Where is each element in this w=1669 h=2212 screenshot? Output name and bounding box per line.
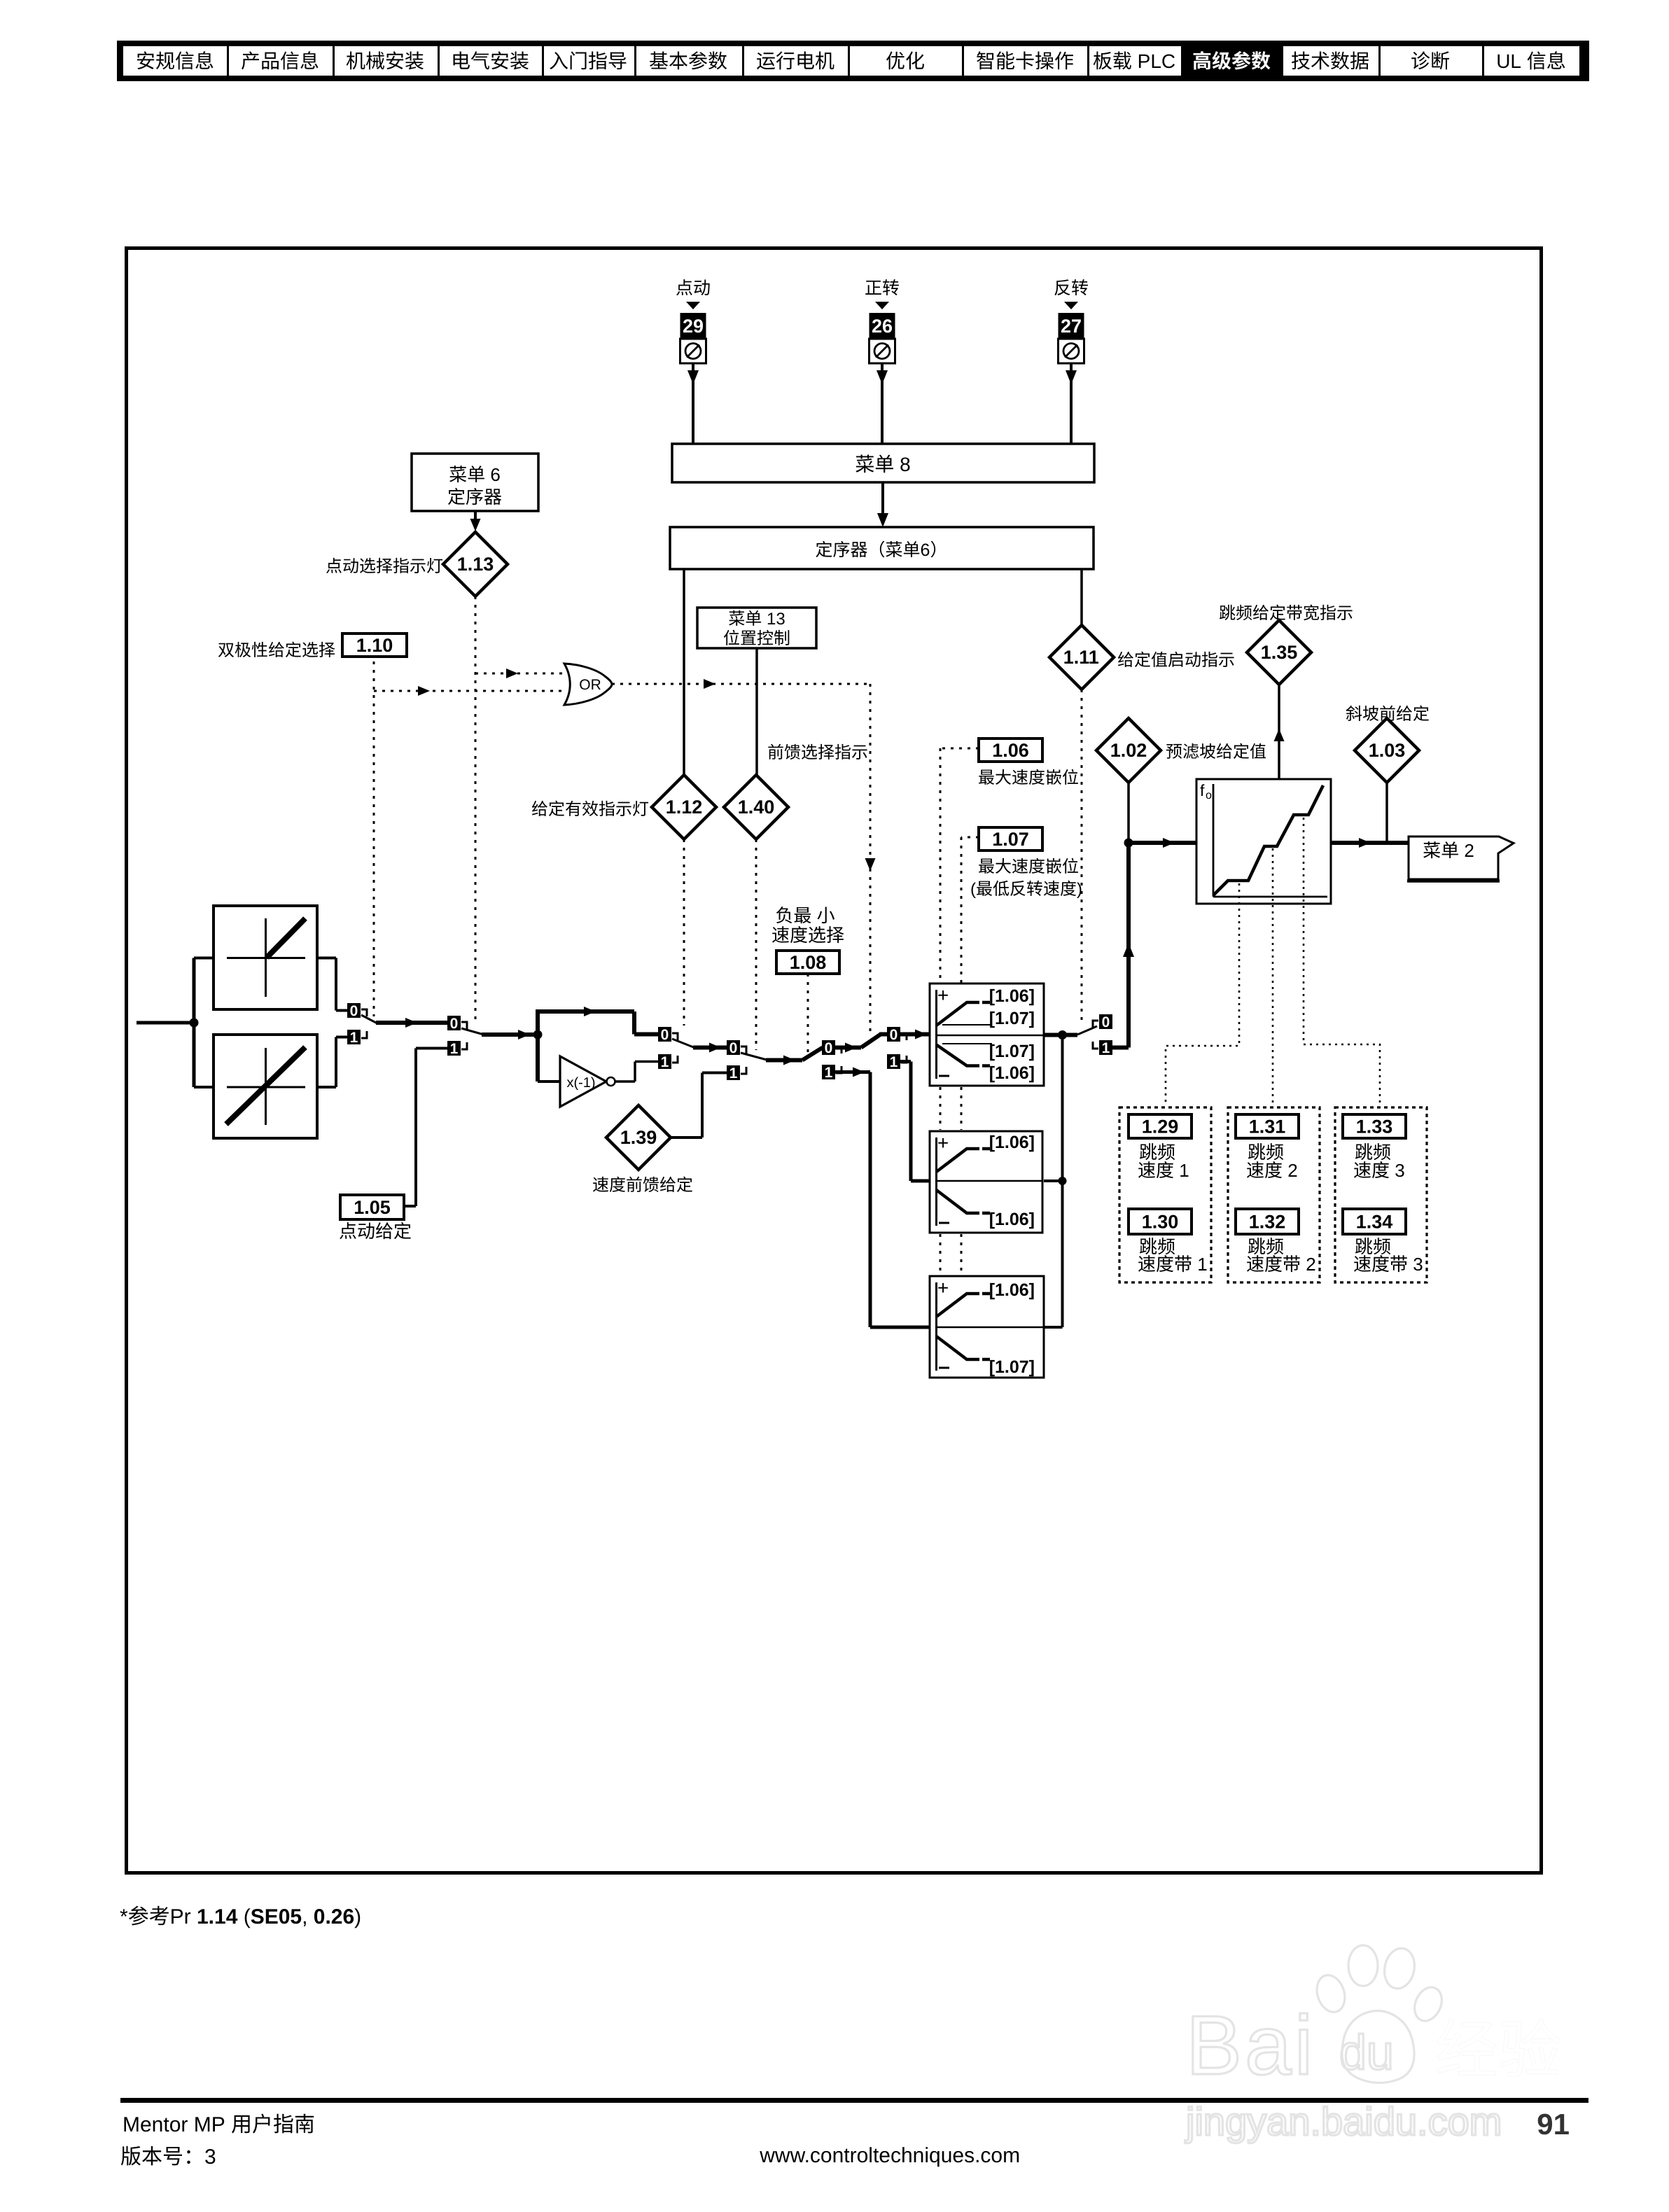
- wire 1.05 to S2.1: [404, 1049, 447, 1207]
- indicator diamond 1.13: [443, 532, 508, 596]
- svg-text:1: 1: [890, 1054, 898, 1070]
- svg-text:13: 13: [767, 610, 785, 629]
- svg-text:1.31: 1.31: [1249, 1116, 1286, 1137]
- wire terminal 29 to menu8: [687, 363, 699, 444]
- control line 1.06 to clamp blocks: [940, 748, 979, 1275]
- terminal 26 正转: [865, 279, 899, 363]
- svg-text:8: 8: [900, 454, 911, 475]
- switch D terminal 1: [887, 1054, 907, 1070]
- block menu6 sequencer: [412, 454, 538, 511]
- svg-text:,: ,: [302, 1905, 307, 1928]
- control line 1.13 to switch S2: [475, 596, 477, 1025]
- svg-text:1.40: 1.40: [738, 797, 775, 818]
- svg-text:www.controltechniques.com: www.controltechniques.com: [759, 2144, 1020, 2167]
- diagram frame: [127, 248, 1542, 1873]
- transfer block bipolar: [194, 1035, 317, 1138]
- indicator diamond 1.40: [724, 775, 788, 839]
- junction clamp outputs: [1058, 1030, 1067, 1039]
- label 斜坡前给定: [1346, 706, 1362, 721]
- svg-text:91: 91: [1537, 2108, 1570, 2141]
- svg-text:1.39: 1.39: [620, 1127, 657, 1148]
- svg-text:jingyan.baidu.com: jingyan.baidu.com: [1185, 2099, 1502, 2143]
- active tab label 高级参数: [1194, 51, 1211, 69]
- svg-text:1.06: 1.06: [992, 740, 1029, 761]
- wire inverter to A.1: [615, 1062, 658, 1082]
- switch A terminal 0: [658, 1027, 678, 1043]
- input junction: [190, 1018, 199, 1028]
- svg-text:29: 29: [683, 316, 704, 337]
- wire clamp3 output: [1044, 1326, 1063, 1329]
- svg-text:1: 1: [1179, 1160, 1189, 1181]
- svg-text:1: 1: [729, 1065, 738, 1081]
- svg-text:1.03: 1.03: [1369, 740, 1406, 761]
- switch E lever: [1077, 1026, 1097, 1035]
- label 负最小: [776, 906, 792, 923]
- wire sequencer to 1.11: [1080, 569, 1083, 626]
- OR gate: [564, 664, 612, 705]
- svg-text:x(-1): x(-1): [566, 1075, 595, 1091]
- svg-text:1: 1: [825, 1065, 833, 1081]
- wire junction down to inverter: [538, 1035, 560, 1081]
- indicator diamond 1.35: [1247, 620, 1311, 685]
- label 最大速度嵌位 upper: [979, 770, 994, 785]
- svg-text:1.35: 1.35: [1261, 642, 1298, 663]
- svg-text:[1.06]: [1.06]: [989, 1063, 1035, 1083]
- switch B lever and output: [741, 1048, 823, 1065]
- wire ramp to 1.35: [1274, 685, 1285, 779]
- svg-text:0: 0: [825, 1040, 833, 1056]
- svg-text:0: 0: [1102, 1014, 1110, 1030]
- svg-text:): ): [1077, 880, 1082, 899]
- svg-text:SE05: SE05: [251, 1905, 302, 1928]
- switch B terminal 1: [727, 1065, 746, 1081]
- svg-text:[1.06]: [1.06]: [989, 1133, 1035, 1152]
- wire terminal 26 to menu8: [877, 363, 888, 444]
- svg-text:*: *: [120, 1905, 128, 1928]
- svg-text:1: 1: [350, 1030, 358, 1046]
- svg-text:1.12: 1.12: [666, 797, 703, 818]
- wire C.1 to clamp block 3: [835, 1067, 930, 1328]
- tab bar right border: [1579, 41, 1589, 81]
- label 跳频给定带宽指示: [1220, 605, 1235, 620]
- wire menu13 to 1.40: [755, 648, 758, 776]
- svg-text:0: 0: [729, 1040, 738, 1056]
- svg-text:1.14: 1.14: [197, 1905, 238, 1928]
- control line 1.40 to switch B: [755, 839, 757, 1050]
- svg-text:1.33: 1.33: [1356, 1116, 1393, 1137]
- clamp block 3 (neg min clamp): [930, 1276, 1044, 1378]
- skip frequency group 2: [1228, 1107, 1320, 1282]
- svg-text:Mentor: Mentor: [123, 2113, 188, 2136]
- block sequencer (menu6): [670, 527, 1094, 569]
- switch A terminal 1: [658, 1054, 678, 1070]
- indicator diamond 1.39: [606, 1105, 671, 1170]
- switch C terminal 1: [822, 1065, 842, 1081]
- wire clamp1 output: [1044, 1033, 1077, 1037]
- label 预滤坡给定值: [1166, 744, 1182, 759]
- switch E terminal 0: [1093, 1014, 1112, 1030]
- junction after S2: [533, 1030, 543, 1039]
- footer version: [121, 2146, 141, 2166]
- junction main line: [1124, 839, 1133, 848]
- control line 1.11 to switch E: [1081, 689, 1083, 1022]
- switch S2 terminal 1: [447, 1041, 467, 1057]
- label 点动选择指示灯: [326, 558, 342, 573]
- skip frequency group 3: [1335, 1107, 1427, 1282]
- control line OR output: [612, 679, 876, 1035]
- switch S1 lever and output: [361, 1015, 447, 1028]
- svg-text:1.05: 1.05: [354, 1197, 391, 1218]
- switch E terminal 1: [1093, 1040, 1112, 1056]
- svg-text:PLC: PLC: [1138, 50, 1175, 72]
- wire sequencer to 1.12: [683, 569, 685, 776]
- switch D terminal 0: [887, 1027, 907, 1043]
- control branch 1.10 to OR: [374, 686, 564, 696]
- svg-text:26: 26: [872, 316, 893, 337]
- dotted link skip group 3: [1304, 818, 1380, 1106]
- wire ramp to menu2: [1331, 838, 1409, 848]
- indicator diamond 1.12: [652, 775, 716, 839]
- wire unipolar out to S1.0: [317, 958, 347, 1011]
- block menu13 position control: [697, 608, 816, 648]
- svg-text:0: 0: [890, 1027, 898, 1043]
- input wire: [137, 1021, 194, 1025]
- clamp block 1 (max speed clamp): [930, 983, 1044, 1086]
- wire 1.39 to B.1: [670, 1073, 727, 1138]
- switch S2 terminal 0: [447, 1016, 467, 1032]
- svg-text:): ): [354, 1905, 361, 1928]
- tab separators: [227, 46, 1484, 76]
- switch S1 terminal 1: [347, 1030, 367, 1046]
- switch C terminal 0: [822, 1040, 842, 1056]
- tab bar top border: [117, 41, 1589, 46]
- dotted link skip group 1: [1166, 883, 1239, 1106]
- svg-text:+: +: [937, 1277, 949, 1298]
- dotted link skip group 2: [1272, 848, 1274, 1106]
- control line 1.10 to switch S1: [373, 661, 375, 1016]
- parameter box 1.07: [979, 827, 1042, 850]
- switch S2 lever and output: [461, 1028, 533, 1039]
- svg-text:0: 0: [661, 1027, 669, 1043]
- svg-text:1: 1: [1197, 1254, 1207, 1275]
- wire junction up to switch A top path: [536, 1007, 658, 1035]
- label 给定有效指示灯: [532, 801, 547, 816]
- svg-text:1.11: 1.11: [1063, 647, 1099, 668]
- svg-text:Bai: Bai: [1186, 1998, 1315, 2092]
- clamp block 2 (jog clamp): [930, 1131, 1042, 1233]
- svg-text:27: 27: [1061, 316, 1082, 337]
- wire D.1 to clamp block 2: [900, 1062, 930, 1182]
- svg-text:[1.07]: [1.07]: [989, 1042, 1035, 1061]
- active tab 高级参数 background: [1181, 41, 1281, 81]
- svg-text:1.30: 1.30: [1142, 1212, 1179, 1233]
- junction clamp2 output: [1059, 1177, 1067, 1185]
- footer rule: [120, 2098, 1588, 2103]
- tab labels: [137, 50, 1565, 72]
- skip frequency group 1: [1119, 1107, 1211, 1282]
- tab bar left border: [117, 41, 123, 81]
- wire clamp join vertical: [1061, 1035, 1064, 1328]
- control line 1.08 to switch B: [807, 974, 809, 1052]
- wire 1.02 to main line: [1127, 783, 1130, 843]
- svg-text:1: 1: [450, 1041, 459, 1057]
- inverter x(-1): [560, 1056, 615, 1107]
- svg-text:o: o: [1206, 790, 1212, 801]
- svg-text:MP: MP: [194, 2113, 225, 2136]
- svg-text:[1.06]: [1.06]: [989, 986, 1035, 1006]
- parameter box 1.05: [340, 1195, 404, 1219]
- block menu8: [672, 444, 1094, 482]
- control line 1.07 to clamp blocks: [961, 837, 979, 1275]
- svg-text:1.02: 1.02: [1110, 740, 1147, 761]
- label 速度前馈给定: [593, 1177, 608, 1192]
- svg-text:OR: OR: [579, 677, 601, 693]
- switch C lever and output: [835, 1035, 887, 1053]
- svg-text:2: 2: [1464, 840, 1474, 861]
- indicator diamond 1.11: [1049, 625, 1114, 689]
- svg-text:du: du: [1339, 2025, 1394, 2080]
- wire bipolar out to S1.1: [317, 1037, 347, 1088]
- indicator diamond 1.02: [1096, 718, 1161, 783]
- transfer block unipolar: [194, 906, 317, 1009]
- svg-text:[1.06]: [1.06]: [989, 1280, 1035, 1300]
- svg-text:0.26: 0.26: [314, 1905, 354, 1928]
- svg-text:1.13: 1.13: [457, 554, 494, 575]
- switch B terminal 0: [727, 1040, 746, 1056]
- svg-text:3: 3: [1413, 1254, 1423, 1275]
- terminal 27 反转: [1054, 279, 1088, 363]
- wire clamp2 output: [1044, 1179, 1063, 1182]
- svg-text:1.07: 1.07: [992, 829, 1029, 850]
- wire terminal 27 to menu8: [1066, 363, 1077, 444]
- label 速度选择: [772, 926, 789, 943]
- output flag menu2: [1407, 836, 1514, 881]
- svg-text:3: 3: [1395, 1160, 1404, 1181]
- svg-text:1.34: 1.34: [1356, 1212, 1393, 1233]
- svg-text:2: 2: [1306, 1254, 1315, 1275]
- svg-text:[1.07]: [1.07]: [989, 1009, 1035, 1028]
- wire 1.03 to main line: [1385, 783, 1388, 843]
- svg-text:1.10: 1.10: [356, 635, 393, 656]
- label 最大速度嵌位 lower: [979, 859, 994, 874]
- svg-text:f: f: [1200, 781, 1205, 799]
- wire E.1 up to ramp line: [1112, 843, 1134, 1048]
- parameter box 1.06: [979, 738, 1042, 762]
- indicator diamond 1.03: [1355, 718, 1419, 783]
- svg-text:(: (: [244, 1905, 251, 1928]
- parameter box 1.10: [342, 633, 407, 657]
- label 前馈选择指示: [768, 744, 783, 759]
- input riser: [193, 958, 196, 1088]
- label 双极性给定选择: [218, 643, 234, 657]
- label 给定值启动指示: [1118, 652, 1133, 667]
- svg-text:6: 6: [921, 540, 930, 560]
- svg-text:3: 3: [204, 2145, 216, 2169]
- svg-text:1: 1: [661, 1054, 669, 1070]
- svg-text:1.29: 1.29: [1142, 1116, 1179, 1137]
- svg-text:1.32: 1.32: [1249, 1212, 1286, 1233]
- switch D output to clamp block 1: [900, 1030, 930, 1039]
- svg-text:2: 2: [1287, 1160, 1297, 1181]
- parameter box 1.08: [776, 951, 839, 974]
- switch A lever and output: [672, 1039, 727, 1053]
- ramp block f0 (skip frequencies): [1196, 779, 1331, 904]
- wire main to ramp: [1129, 838, 1196, 848]
- control branch 1.13 to OR: [475, 668, 564, 678]
- terminal 29 点动: [676, 279, 710, 363]
- baidu watermark: [1185, 1945, 1560, 2143]
- label 点动给定: [340, 1222, 356, 1239]
- svg-text:[1.07]: [1.07]: [989, 1357, 1035, 1377]
- wire menu8 to sequencer: [877, 482, 888, 527]
- svg-text:6: 6: [490, 464, 500, 485]
- svg-text:(: (: [970, 880, 976, 899]
- svg-text:[1.06]: [1.06]: [989, 1210, 1035, 1229]
- svg-text:1.08: 1.08: [790, 952, 827, 973]
- control line 1.12 to switch A: [683, 839, 685, 1025]
- svg-text:+: +: [937, 984, 949, 1006]
- tab bar bottom border: [117, 76, 1589, 81]
- svg-text:1: 1: [1102, 1040, 1110, 1056]
- wire menu6 to 1.13: [470, 511, 481, 531]
- svg-text:0: 0: [350, 1003, 358, 1019]
- svg-text:+: +: [937, 1132, 949, 1154]
- switch S1 terminal 0: [347, 1003, 367, 1019]
- svg-text:0: 0: [450, 1016, 459, 1032]
- svg-text:Pr: Pr: [170, 1905, 191, 1928]
- svg-text:UL: UL: [1496, 50, 1521, 72]
